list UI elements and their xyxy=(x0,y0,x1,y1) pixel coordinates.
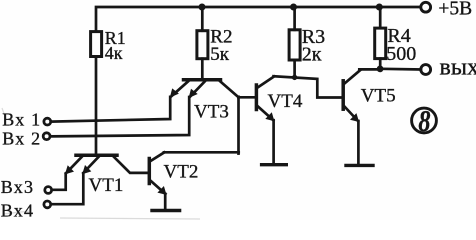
svg-text:8: 8 xyxy=(418,104,430,139)
resistor R4 xyxy=(375,28,386,58)
svg-text:+5В: +5В xyxy=(438,0,472,20)
wire VT4 collector to R3 and VT5 base xyxy=(274,76,342,97)
terminal input Vx3 xyxy=(45,187,52,194)
svg-text:VT2: VT2 xyxy=(164,161,199,182)
junction R3-collector line xyxy=(292,75,297,80)
svg-text:вых: вых xyxy=(440,55,476,81)
wire VT5 collector to output node xyxy=(359,68,380,71)
wire R3 to VT4 collector node xyxy=(293,60,296,77)
terminal input Vx4 xyxy=(44,201,51,208)
svg-text:Вх 1: Вх 1 xyxy=(2,110,41,130)
wire VT3 collector to VT4 base xyxy=(239,96,255,99)
svg-text:Вх3: Вх3 xyxy=(1,177,34,197)
wire R1 to VT1 base xyxy=(95,57,98,154)
svg-text:VT5: VT5 xyxy=(361,86,396,107)
transistor VT4 emitter arrow xyxy=(265,112,274,121)
junction rail-R3 xyxy=(290,4,297,11)
transistor VT3 emitter 1 xyxy=(171,81,188,96)
transistor VT5 emitter xyxy=(345,107,359,122)
transistor VT4 emitter xyxy=(258,107,273,121)
transistor VT1 collector xyxy=(114,157,148,173)
wire R4 to output node xyxy=(379,59,382,69)
resistor R1 xyxy=(91,32,102,57)
ground VT4 xyxy=(262,163,287,166)
transistor VT2 emitter arrow xyxy=(157,186,166,195)
wire Vx1 to VT3 emitter 1 xyxy=(51,97,170,122)
terminal output xyxy=(421,65,431,75)
junction output node xyxy=(377,66,384,73)
wire +5V power rail xyxy=(96,7,419,32)
resistor R2 xyxy=(197,31,208,59)
wire Vx3 to VT1 emitter 1 xyxy=(52,174,66,190)
wire output node to output terminal xyxy=(380,67,421,70)
transistor VT3 collector xyxy=(220,81,239,97)
wire VT5 emitter to ground xyxy=(357,121,360,164)
terminal +5V xyxy=(421,2,431,12)
svg-text:VT4: VT4 xyxy=(268,91,303,112)
terminal input Vx2 xyxy=(43,133,50,140)
transistor VT2 collector xyxy=(151,152,164,160)
ground VT5 xyxy=(346,164,373,167)
wire Vx4 to VT1 emitter 2 xyxy=(51,173,83,204)
wire rail to R4 xyxy=(379,7,382,28)
transistor VT1 emitter 1 xyxy=(66,157,82,173)
transistor VT1 emitter 2 xyxy=(83,157,98,173)
wire node to VT3 collector xyxy=(237,97,240,154)
wire VT4 emitter to ground xyxy=(272,120,275,163)
transistor VT3 base bar xyxy=(184,78,221,82)
transistor VT1 emitter 1 arrow xyxy=(65,165,74,174)
resistor R3 xyxy=(289,30,300,60)
transistor VT5 emitter arrow xyxy=(350,113,359,122)
wire VT2 collector to node xyxy=(164,151,239,154)
transistor VT4 base bar xyxy=(255,85,259,110)
wire Vx2 to VT3 emitter 2 xyxy=(51,97,190,136)
junction rail-R2 xyxy=(199,4,206,11)
transistor VT5 base bar xyxy=(341,81,345,109)
figure number circle 8 xyxy=(412,108,437,133)
transistor VT1 base bar xyxy=(76,154,117,158)
svg-text:4к: 4к xyxy=(105,43,123,63)
svg-text:500: 500 xyxy=(386,43,416,65)
junction rail-R4 xyxy=(376,4,383,11)
transistor VT1 emitter 2 arrow xyxy=(82,165,91,174)
transistor VT2 base bar xyxy=(148,159,152,184)
transistor VT5 collector xyxy=(345,70,361,83)
svg-text:5к: 5к xyxy=(210,44,230,65)
terminal input Vx1 xyxy=(44,118,51,125)
wire R2 to VT3 base xyxy=(201,59,204,78)
transistor VT2 emitter xyxy=(151,181,166,194)
svg-text:VT1: VT1 xyxy=(89,175,124,196)
svg-text:Вх4: Вх4 xyxy=(1,201,34,221)
ground VT2 xyxy=(152,209,180,212)
svg-text:Вх 2: Вх 2 xyxy=(2,128,41,148)
transistor VT3 emitter 2 xyxy=(190,81,205,97)
wire rail to R2 xyxy=(201,7,204,31)
svg-text:2к: 2к xyxy=(302,43,322,65)
svg-text:VT3: VT3 xyxy=(194,101,229,122)
wire VT2 emitter to ground xyxy=(164,194,167,209)
transistor VT4 collector xyxy=(258,77,274,88)
wire rail to R3 xyxy=(293,7,296,30)
transistor VT3 emitter 1 arrow xyxy=(170,88,179,97)
transistor VT3 emitter 2 arrow xyxy=(189,89,198,98)
